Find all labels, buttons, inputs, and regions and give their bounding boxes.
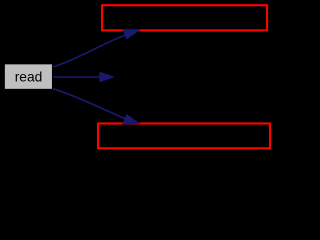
- svg-text:read: read: [15, 70, 43, 85]
